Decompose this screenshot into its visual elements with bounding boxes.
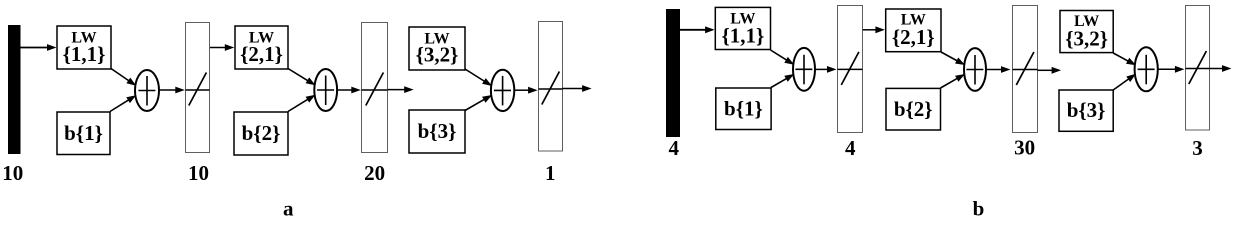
svg-text:30: 30 xyxy=(1014,136,1035,160)
svg-text:{2,1}: {2,1} xyxy=(892,25,935,49)
svg-text:1: 1 xyxy=(545,161,556,185)
svg-text:3: 3 xyxy=(1192,136,1203,160)
svg-text:a: a xyxy=(283,197,294,221)
svg-text:20: 20 xyxy=(364,161,385,185)
svg-text:4: 4 xyxy=(845,136,856,160)
svg-text:{3,2}: {3,2} xyxy=(416,43,459,67)
svg-text:{1,1}: {1,1} xyxy=(721,23,764,47)
svg-text:10: 10 xyxy=(188,161,209,185)
svg-text:b{1}: b{1} xyxy=(64,121,103,145)
svg-text:{3,2}: {3,2} xyxy=(1065,27,1108,51)
svg-text:b: b xyxy=(973,197,985,221)
svg-text:b{2}: b{2} xyxy=(894,97,933,121)
svg-text:4: 4 xyxy=(669,136,680,160)
svg-text:{2,1}: {2,1} xyxy=(240,42,283,66)
svg-text:b{3}: b{3} xyxy=(1067,98,1106,122)
svg-text:b{2}: b{2} xyxy=(242,121,281,145)
svg-text:b{1}: b{1} xyxy=(724,97,763,121)
svg-text:10: 10 xyxy=(2,161,23,185)
svg-text:b{3}: b{3} xyxy=(418,119,457,143)
svg-text:{1,1}: {1,1} xyxy=(63,42,106,66)
